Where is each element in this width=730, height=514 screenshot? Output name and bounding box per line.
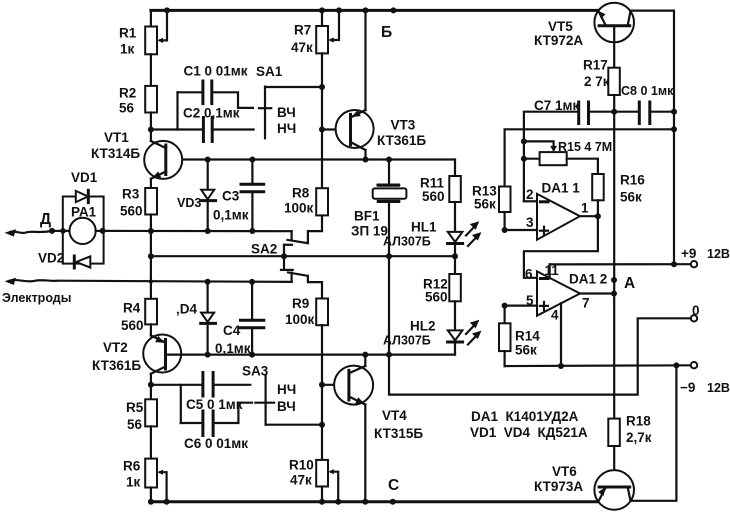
svg-text:VD2: VD2: [38, 251, 64, 266]
wire top rail right segment (VT5 collector to corner): [630, 11, 674, 265]
svg-text:С6 0 01мк: С6 0 01мк: [184, 436, 248, 451]
wire electrode 1 lead with arrow: [5, 229, 63, 236]
svg-text:ВЧ: ВЧ: [277, 399, 296, 414]
capacitor C7: [524, 102, 639, 201]
node VD3 bottom: [205, 228, 211, 234]
node R10 bottom: [319, 499, 325, 505]
LED HL2: [448, 320, 482, 355]
svg-text:1к: 1к: [120, 42, 135, 57]
svg-text:56к: 56к: [620, 190, 642, 205]
wire zero line: [389, 318, 691, 394]
node VT3 base junction: [319, 127, 325, 133]
resistor R5: [145, 385, 157, 459]
svg-text:VT3: VT3: [391, 118, 416, 133]
node center bus left end: [148, 253, 154, 259]
svg-text:С2 0,1мк: С2 0,1мк: [183, 106, 240, 121]
svg-text:5: 5: [526, 293, 534, 308]
transistor VT1: [144, 130, 182, 189]
svg-text:R1: R1: [119, 26, 137, 41]
svg-text:R4: R4: [123, 301, 141, 316]
node VD3 top: [205, 157, 211, 163]
node pin 4 / -9 rail: [558, 363, 564, 369]
svg-text:47к: 47к: [290, 473, 312, 488]
node C4 bottom: [249, 352, 255, 358]
svg-text:+9: +9: [681, 246, 696, 261]
svg-text:С3: С3: [222, 189, 240, 204]
wire LED column top turn: [454, 160, 456, 177]
resistor R15 (trimmer horizontal): [521, 138, 598, 174]
wire center common bus: [151, 255, 455, 257]
svg-text:КТ361Б: КТ361Б: [377, 133, 426, 148]
node VT4 emitter column: [362, 499, 368, 505]
node R17/C7/C8 junction: [611, 109, 617, 115]
meter PA1: [63, 218, 104, 244]
capacitor C4: [241, 282, 264, 355]
svg-text:SA1: SA1: [256, 64, 283, 79]
svg-text:56: 56: [127, 417, 143, 432]
meter PA1 box: [63, 197, 104, 264]
svg-text:56к: 56к: [515, 343, 537, 358]
svg-text:0: 0: [692, 303, 700, 318]
node VT2 collector junction: [148, 382, 154, 388]
switch SA2 upper throw: [288, 215, 323, 243]
svg-text:560: 560: [425, 290, 448, 305]
svg-text:Б: Б: [381, 24, 392, 41]
node R6 bottom: [148, 499, 154, 505]
node LED column crossing: [452, 253, 458, 259]
node R7 top junction: [319, 7, 325, 13]
wire DA1.2 output: [580, 292, 614, 294]
svg-text:С1 0 01мк: С1 0 01мк: [184, 64, 248, 79]
node R16 bottom/output junction: [595, 213, 601, 219]
transistor VT6: [594, 365, 676, 509]
svg-text:SA2: SA2: [251, 242, 277, 257]
resistor R17: [608, 68, 620, 112]
svg-text:VD1: VD1: [71, 170, 98, 185]
svg-text:1к: 1к: [126, 475, 141, 490]
svg-text:R2: R2: [119, 86, 136, 101]
node VD4 bottom: [205, 352, 211, 358]
svg-text:КТ973А: КТ973А: [534, 479, 583, 494]
svg-text:560: 560: [120, 204, 143, 219]
svg-text:КТ972А: КТ972А: [534, 33, 583, 48]
wire R17-R18 column: [613, 112, 615, 419]
transistor VT2: [143, 335, 181, 385]
diode VD2: [74, 256, 90, 268]
resistor R8: [316, 188, 328, 215]
svg-text:56: 56: [119, 101, 135, 116]
wire DA1.1 output to DA1.2 input: [524, 216, 598, 278]
node VT4 base junction: [319, 382, 325, 388]
node R1 wiper junction: [164, 7, 170, 13]
svg-text:КТ361Б: КТ361Б: [92, 358, 141, 373]
node PA1 box right: [100, 228, 106, 234]
svg-text:НЧ: НЧ: [277, 121, 296, 136]
switch SA2 lower throw: [288, 272, 322, 298]
svg-text:SA3: SA3: [242, 364, 269, 379]
piezo BF1: [373, 160, 407, 355]
resistor R14: [499, 306, 511, 367]
wire +9V rail: [550, 263, 691, 265]
svg-text:2,7к: 2,7к: [626, 430, 652, 445]
svg-text:R9: R9: [292, 296, 309, 311]
svg-text:‚D4: ‚D4: [176, 302, 198, 317]
svg-text:VD3: VD3: [177, 196, 201, 210]
wire R3/R4 column: [150, 231, 152, 299]
svg-text:С: С: [388, 477, 399, 494]
svg-text:−9: −9: [680, 380, 695, 395]
svg-text:С8 0 1мк: С8 0 1мк: [621, 84, 674, 98]
svg-text:R17: R17: [583, 58, 608, 73]
switch SA2 pole: [281, 245, 293, 270]
svg-text:100к: 100к: [285, 312, 315, 327]
node VT3 emitter column junction: [363, 7, 369, 13]
capacitor C3: [241, 160, 264, 232]
svg-text:VT1: VT1: [104, 130, 129, 145]
resistor R18: [608, 419, 620, 488]
svg-text:R3: R3: [122, 187, 140, 202]
wire bias loop top: [505, 129, 674, 186]
svg-text:R15 4 7М: R15 4 7М: [558, 140, 612, 154]
op-amp DA1.1: [505, 194, 580, 240]
svg-text:С7 1мк: С7 1мк: [534, 98, 580, 113]
svg-text:1: 1: [581, 201, 589, 216]
svg-text:6: 6: [525, 267, 533, 282]
node VT3 collector: [363, 157, 369, 163]
svg-text:R18: R18: [626, 414, 651, 429]
wire electrode 2 lead with arrow: [5, 278, 292, 285]
svg-text:VT5: VT5: [548, 19, 573, 34]
resistor R3: [145, 188, 157, 231]
resistor R4: [145, 299, 157, 336]
svg-text:7: 7: [582, 296, 590, 311]
svg-text:R7: R7: [294, 23, 311, 38]
node C3 bottom: [249, 228, 255, 234]
op-amp DA1.2: [505, 264, 580, 366]
resistor R2: [145, 86, 157, 130]
svg-text:560: 560: [422, 189, 445, 204]
LED HL1: [448, 221, 482, 256]
transistor VT5: [594, 3, 634, 68]
node R6 wiper: [164, 499, 170, 505]
diode VD3: [201, 160, 216, 232]
svg-text:VT6: VT6: [552, 464, 577, 479]
svg-text:Д: Д: [40, 211, 51, 228]
svg-text:DA1 1: DA1 1: [542, 181, 581, 196]
node A test point: [611, 277, 617, 283]
capacitor C5: [151, 373, 250, 397]
capacitor C1: [178, 81, 253, 130]
capacitor C6: [181, 385, 252, 436]
node SA2 pole junction: [281, 253, 287, 259]
node C test point: [390, 499, 396, 505]
node pin 3 junction: [502, 227, 508, 233]
resistor R10 (trimmer): [316, 460, 338, 502]
resistor R13: [499, 187, 511, 231]
node column crossing electrode-2 bus: [149, 279, 153, 283]
wire VT3 base: [322, 128, 351, 130]
wire R7 column to VT3 base row: [321, 87, 323, 130]
transistor VT3: [336, 10, 374, 159]
svg-text:12В: 12В: [707, 247, 730, 261]
node output junction: [611, 291, 617, 297]
wire top supply rail: [151, 9, 599, 12]
transistor VT4: [334, 355, 373, 502]
svg-text:DA1 К1401УД2А: DA1 К1401УД2А: [471, 409, 579, 424]
svg-text:РА1: РА1: [71, 205, 97, 220]
svg-text:VT2: VT2: [103, 340, 128, 355]
svg-text:R8: R8: [292, 186, 310, 201]
node BF1 bottom: [386, 253, 392, 259]
wire upper base/collector bus: [166, 158, 455, 160]
node PA1 box left: [60, 228, 66, 234]
resistor R16: [592, 174, 604, 216]
svg-text:DA1 2: DA1 2: [569, 272, 607, 287]
resistor R1 (trimmer): [145, 10, 167, 86]
terminal 0: [691, 315, 697, 321]
svg-text:АЛ307Б: АЛ307Б: [383, 334, 431, 348]
resistor R12: [449, 256, 461, 330]
switch SA1: [259, 87, 322, 139]
diode VD4: [201, 282, 216, 355]
svg-text:ВЧ: ВЧ: [277, 105, 296, 120]
svg-text:R5: R5: [126, 400, 144, 415]
node B test point: [390, 7, 396, 13]
wire electrode-1 bus: [104, 230, 292, 233]
wire -9V rail: [505, 364, 691, 367]
svg-text:R14: R14: [515, 329, 540, 344]
svg-text:R6: R6: [123, 459, 141, 474]
svg-text:КТ315Б: КТ315Б: [374, 426, 423, 441]
svg-text:А: А: [624, 275, 635, 292]
node R7 wiper junction: [336, 7, 342, 13]
svg-text:НЧ: НЧ: [277, 382, 296, 397]
terminal +9: [691, 261, 697, 267]
svg-text:R16: R16: [620, 173, 645, 188]
svg-text:3: 3: [526, 215, 534, 230]
svg-text:R10: R10: [289, 458, 314, 473]
resistor R9: [316, 299, 328, 326]
svg-text:КТ314Б: КТ314Б: [91, 146, 140, 161]
node R3 bottom: [148, 228, 154, 234]
capacitor C8: [639, 102, 674, 124]
node VD4 top: [205, 279, 211, 285]
diode VD1: [76, 190, 89, 202]
svg-text:47к: 47к: [291, 40, 313, 55]
svg-text:VD1 VD4 КД521А: VD1 VD4 КД521А: [470, 425, 588, 440]
terminal -9: [691, 362, 697, 368]
wire bottom supply rail: [151, 500, 597, 503]
svg-text:VT4: VT4: [382, 408, 407, 423]
node R10 wiper: [335, 499, 341, 505]
svg-text:100к: 100к: [284, 201, 314, 216]
node VT4 collector: [362, 352, 368, 358]
node C3 top: [249, 157, 255, 163]
switch SA3: [255, 376, 322, 425]
svg-text:Электроды: Электроды: [2, 291, 71, 305]
node +9 / collector column: [671, 261, 677, 267]
node electrode 1: [49, 228, 55, 234]
resistor R6 (trimmer): [145, 459, 166, 502]
svg-text:2 7к: 2 7к: [584, 74, 610, 89]
svg-text:0,1мк: 0,1мк: [213, 208, 249, 223]
node SA1/R7 junction: [319, 84, 325, 90]
node R2/C2/VT1-collector junction: [148, 127, 154, 133]
node -9 / VT6 column: [673, 362, 679, 368]
svg-text:АЛ307Б: АЛ307Б: [383, 235, 431, 249]
svg-text:HL1: HL1: [411, 220, 437, 235]
svg-text:560: 560: [121, 318, 144, 333]
wire VT4 base: [322, 384, 349, 386]
node pin 5 junction: [502, 303, 508, 309]
svg-text:56к: 56к: [474, 197, 496, 212]
wire lower base/collector bus: [166, 354, 456, 356]
node loop/collector column junction: [671, 126, 677, 132]
svg-text:С4: С4: [223, 323, 241, 338]
resistor R11: [449, 176, 461, 232]
wire column crossing bus to R8: [321, 130, 323, 189]
svg-text:BF1: BF1: [354, 209, 380, 224]
capacitor C2: [151, 118, 254, 142]
node SA3 junction: [319, 422, 325, 428]
node C4 top: [249, 279, 255, 285]
wire R9/R10 column: [321, 325, 323, 460]
resistor R7 (trimmer): [316, 10, 339, 87]
svg-text:12В: 12В: [707, 381, 730, 395]
node C8 right junction: [671, 109, 677, 115]
node BF1/zero line: [386, 352, 392, 358]
svg-text:4: 4: [551, 308, 559, 323]
svg-text:HL2: HL2: [410, 319, 436, 334]
svg-text:2: 2: [526, 187, 534, 202]
node BF1 top: [386, 157, 392, 163]
